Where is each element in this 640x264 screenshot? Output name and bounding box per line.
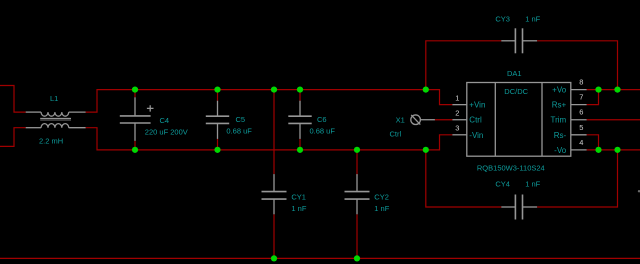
svg-text:0.68 uF: 0.68 uF [226, 127, 252, 136]
junction CY3 right [614, 87, 620, 93]
capacitor C4 [120, 97, 154, 141]
junction CY1 earth [271, 255, 277, 261]
wire C4 bottom [134, 141, 136, 150]
svg-text:C5: C5 [236, 115, 246, 124]
wire CY3 left [426, 41, 502, 90]
wire C5 bottom [217, 139, 219, 150]
svg-text:1 nF: 1 nF [525, 179, 540, 188]
DA1 pin 3 stub [452, 134, 466, 136]
dc-dc converter DA1 body [467, 83, 571, 157]
DA1 pin 6 stub [571, 119, 587, 121]
junction C5 bottom [214, 147, 220, 153]
DA1 pin 8 stub [571, 89, 587, 91]
svg-text:Rs-: Rs- [554, 131, 567, 140]
svg-text:CY4: CY4 [495, 179, 510, 188]
junction CY2 top [354, 147, 360, 153]
svg-text:C6: C6 [317, 115, 327, 124]
capacitor CY4 [501, 195, 537, 220]
svg-text:L1: L1 [50, 94, 58, 103]
junction C4 bottom [132, 147, 138, 153]
svg-text:5: 5 [579, 123, 583, 132]
svg-text:+Vo: +Vo [552, 86, 567, 95]
junction CY4 left [423, 147, 429, 153]
wire CY1 top [273, 90, 275, 175]
svg-text:1 nF: 1 nF [525, 15, 540, 24]
DA1 pin 5 stub [571, 134, 587, 136]
wire Rs+ jog pin7 [587, 90, 599, 105]
svg-text:4: 4 [579, 138, 583, 147]
wire input line bottom [0, 128, 26, 147]
svg-text:CY3: CY3 [495, 15, 510, 24]
junction CY2 earth [354, 255, 360, 261]
svg-text:1 nF: 1 nF [291, 204, 306, 213]
wire CY4 right [537, 150, 617, 207]
junction C4 top [132, 87, 138, 93]
wire +DC bus top rail [86, 90, 453, 113]
wire +Vo net pin8 [587, 89, 640, 91]
wire -Vo net pin4 [587, 149, 640, 151]
capacitor CY1 [262, 174, 287, 214]
wire C4 top [134, 90, 136, 98]
junction C5 top [214, 87, 220, 93]
wire CY1 bottom [273, 214, 275, 258]
wire CY3 right [537, 41, 617, 90]
svg-text:2: 2 [455, 109, 459, 118]
junction CY1 top [271, 87, 277, 93]
svg-text:220 uF 200V: 220 uF 200V [145, 127, 188, 136]
DA1 pin 7 stub [571, 104, 587, 106]
svg-text:Ctrl: Ctrl [390, 130, 402, 139]
stray mark right edge [638, 190, 640, 192]
wire X1 to pin2 [435, 119, 453, 121]
svg-text:6: 6 [579, 108, 583, 117]
svg-text:CY1: CY1 [291, 192, 306, 201]
DA1 pin 1 stub [452, 104, 466, 106]
junction C6 top [297, 87, 303, 93]
svg-text:1 nF: 1 nF [374, 204, 389, 213]
svg-text:-Vin: -Vin [469, 131, 483, 140]
svg-text:7: 7 [579, 93, 583, 102]
DA1 pin 4 stub [571, 149, 587, 151]
wire Rs- jog pin5 [587, 135, 599, 150]
svg-text:X1: X1 [396, 116, 405, 125]
svg-text:0.68 uF: 0.68 uF [310, 127, 336, 136]
svg-text:C4: C4 [160, 116, 170, 125]
wire CY2 bottom [356, 214, 358, 258]
capacitor C5 [206, 101, 229, 139]
svg-text:Trim: Trim [550, 116, 566, 125]
svg-text:+Vin: +Vin [469, 101, 485, 110]
svg-text:3: 3 [455, 124, 459, 133]
wire C6 bottom [299, 139, 301, 150]
svg-text:Rs+: Rs+ [552, 101, 567, 110]
svg-text:RQB150W3-110S24: RQB150W3-110S24 [477, 163, 545, 172]
wire C6 top [299, 90, 301, 101]
junction Rs+ to +Vo [595, 87, 601, 93]
junction C6 bottom [297, 147, 303, 153]
svg-text:1: 1 [455, 93, 459, 102]
svg-text:2.2 mH: 2.2 mH [39, 137, 63, 146]
inductor L1 [26, 112, 86, 128]
capacitor CY2 [345, 174, 370, 214]
wire CY4 left [426, 150, 502, 207]
svg-text:-Vo: -Vo [554, 146, 567, 155]
svg-text:DA1: DA1 [507, 69, 522, 78]
DA1 pin 2 stub [452, 119, 466, 121]
wire CY2 top [356, 150, 358, 176]
junction Rs- to -Vo [595, 147, 601, 153]
no-connect X1 [411, 115, 435, 125]
wire earth rail [0, 257, 640, 259]
wire input line top [0, 86, 26, 113]
wire C5 top [217, 90, 219, 101]
svg-text:8: 8 [579, 78, 583, 87]
wire -DC bus mid rail [86, 128, 453, 150]
junction CY4 right [614, 147, 620, 153]
junction CY3 left [423, 87, 429, 93]
svg-text:DC/DC: DC/DC [504, 87, 528, 96]
svg-text:CY2: CY2 [374, 192, 389, 201]
capacitor C6 [288, 101, 311, 139]
svg-text:Ctrl: Ctrl [469, 116, 482, 125]
capacitor CY3 [501, 28, 537, 53]
wire Trim net pin6 [587, 119, 640, 121]
